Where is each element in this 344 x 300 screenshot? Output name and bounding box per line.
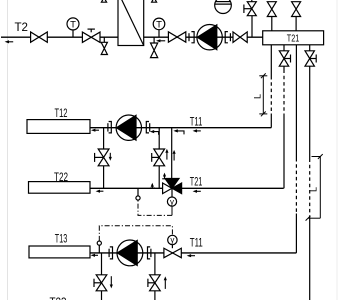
riser A from header (solid-break-solid) bbox=[270, 45, 272, 128]
vent valve cut at top edge (right) bbox=[152, 0, 157, 2]
up flow arrow right of branch bbox=[162, 173, 167, 179]
pump P3 bbox=[117, 240, 143, 266]
wire: continuation below bottom right valve bbox=[154, 291, 156, 300]
pump coupling left of pump P3 bbox=[109, 247, 112, 259]
wire: circuit 2 pipe T21 bbox=[90, 187, 284, 189]
wire: drain branch left below T13 pipe bbox=[101, 253, 103, 275]
thermometer T (left of exchanger) bbox=[67, 18, 79, 37]
gate valve top row #3 bbox=[168, 32, 185, 42]
svg-text:T12: T12 bbox=[55, 106, 68, 120]
temperature sensor on T22 pipe bbox=[136, 188, 140, 200]
gate valve top row #1 bbox=[31, 32, 48, 42]
pump coupling right of pump P1 bbox=[225, 32, 230, 43]
gate valve top row #4 bbox=[233, 32, 247, 43]
svg-text:T23: T23 bbox=[50, 295, 67, 300]
flow arrow under T11 label bbox=[193, 129, 201, 132]
riser B from header with valve bbox=[279, 45, 290, 189]
radiator T22 bbox=[29, 170, 91, 193]
svg-text:T11: T11 bbox=[190, 236, 203, 250]
drain valve below pipe (right of exchanger) bbox=[151, 37, 158, 57]
actuator y on three-way valve bbox=[167, 188, 176, 206]
shut-off valve on branch (left handle) bbox=[152, 149, 165, 166]
flow arrow up beside valve bbox=[165, 149, 168, 160]
flow arrow under T11 label (circuit 3) bbox=[187, 254, 195, 257]
svg-text:γ: γ bbox=[170, 197, 174, 206]
flow arrow into radiator T22 bbox=[96, 190, 104, 193]
svg-text:T13: T13 bbox=[55, 232, 68, 246]
flow arrow under T21 label bbox=[193, 190, 201, 193]
pump P1 bbox=[197, 25, 222, 50]
svg-text:L: L bbox=[309, 187, 319, 192]
flow arrow up beside drop to three-way valve bbox=[173, 150, 176, 161]
svg-text:L: L bbox=[253, 94, 263, 99]
flow arrow on T2 line bbox=[5, 40, 14, 43]
flow arrow up beside bottom right valve bbox=[164, 276, 167, 289]
shut-off valve with handle cut at top bbox=[244, 0, 256, 16]
elbow flow arrow under circuit1 pipe (left) bbox=[150, 130, 159, 135]
pump coupling right of pump P3 bbox=[148, 247, 151, 259]
page margin line left bbox=[7, 0, 9, 300]
svg-text:T: T bbox=[70, 19, 76, 30]
svg-text:T11: T11 bbox=[190, 114, 203, 128]
wire: circuit 1 pipe T11 bbox=[90, 127, 271, 129]
flow arrow down beside valve bbox=[109, 153, 112, 161]
shut-off valve on branch (left handle) bbox=[95, 149, 109, 166]
elbow flow arrow under circuit1 pipe (right) bbox=[173, 129, 184, 134]
wire: branch with valve down to T22 line bbox=[103, 128, 105, 189]
pump coupling left of pump P1 bbox=[189, 32, 194, 43]
control line sensor to actuator bbox=[138, 200, 172, 215]
thermometer T (right of exchanger) bbox=[153, 18, 165, 37]
riser D from header with valve, runs off bottom bbox=[305, 45, 316, 300]
vent valve above header (left) bbox=[267, 2, 276, 31]
motorized two-way valve circuit 3 bbox=[164, 248, 181, 258]
expansion vessel bbox=[215, 0, 232, 14]
up flow arrow on T22 pipe bbox=[150, 183, 155, 189]
control line sensor to actuator (circuit 3) bbox=[99, 226, 172, 241]
radiator T12 bbox=[27, 106, 90, 133]
page margin line right bbox=[336, 0, 338, 300]
flow arrow after exchanger bbox=[156, 39, 165, 42]
svg-text:T21: T21 bbox=[190, 174, 203, 188]
header T21 bbox=[263, 31, 324, 45]
wire: branch with valve down to three-way valve area bbox=[158, 128, 160, 189]
wire: drain branch right below T13 pipe bbox=[154, 253, 156, 275]
wire: circuit 3 pipe T11 bbox=[90, 252, 296, 254]
drain valve below pipe (left of exchanger) bbox=[101, 37, 107, 54]
pump coupling right of pump P2 bbox=[146, 122, 149, 133]
dimension L for risers A/B break bbox=[253, 73, 268, 116]
flow arrow into radiator T13 bbox=[91, 254, 98, 257]
temperature sensor on T13 pipe bbox=[97, 241, 101, 253]
svg-text:T2: T2 bbox=[15, 20, 29, 34]
svg-text:T21: T21 bbox=[287, 32, 300, 44]
wire: drop to three-way valve top port bbox=[171, 128, 173, 179]
svg-text:T: T bbox=[156, 19, 162, 30]
balancing valve top row #2 with stem bbox=[82, 29, 100, 42]
wire: branch up to cut shut-off valve bbox=[251, 16, 253, 38]
flow arrow down beside bottom left valve bbox=[110, 276, 113, 288]
wire: continuation below bottom left valve bbox=[101, 291, 103, 300]
wire: top main pipe T2 bbox=[1, 36, 263, 38]
pump coupling left of pump P2 bbox=[108, 122, 111, 133]
actuator y on motor valve bbox=[168, 235, 177, 248]
heat exchanger bbox=[118, 0, 144, 46]
shut-off valve bottom right bbox=[148, 275, 160, 291]
dimension L for riser D break bbox=[306, 154, 323, 221]
vent valve above header (right) bbox=[292, 2, 301, 31]
svg-text:T22: T22 bbox=[54, 170, 68, 184]
shut-off valve bottom left bbox=[94, 275, 107, 291]
vent valve cut at top edge (left) bbox=[101, 0, 106, 2]
riser C from header bbox=[295, 45, 297, 253]
pump P2 bbox=[116, 115, 141, 140]
svg-text:γ: γ bbox=[170, 236, 174, 245]
three-way mixing valve bbox=[163, 179, 182, 194]
flow arrow into radiator T12 bbox=[91, 129, 99, 132]
radiator T13 bbox=[29, 232, 90, 258]
